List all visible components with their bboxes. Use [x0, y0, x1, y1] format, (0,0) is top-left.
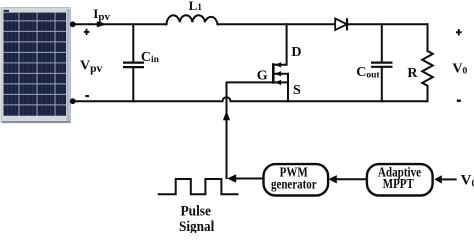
svg-text:R: R [407, 66, 418, 81]
svg-text:Signal: Signal [179, 219, 214, 233]
svg-text:Pulse: Pulse [181, 203, 212, 219]
svg-text:D: D [291, 45, 301, 60]
svg-text:MPPT: MPPT [383, 177, 415, 192]
svg-text:G: G [257, 69, 268, 84]
svg-text:S: S [293, 83, 301, 98]
svg-text:generator: generator [271, 178, 317, 193]
